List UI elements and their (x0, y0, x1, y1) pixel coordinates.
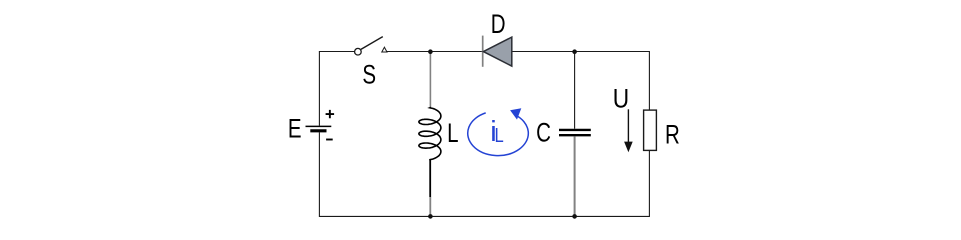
node: junction dot bottom of capacitor branch (572, 214, 577, 219)
wire: right vertical (upper, to resistor) (648, 52, 650, 111)
current loop arrow iL: elliptical arc (blue) (468, 113, 529, 156)
diode D: cathode bar (gray) (482, 36, 484, 67)
wire: right vertical (lower, from resistor) (648, 150, 650, 216)
inductor L: bottom lead (black) (429, 160, 431, 198)
wire: top-middle segment (switch to diode) (387, 51, 482, 53)
battery E: minus sign (326, 139, 333, 141)
switch S: right contact triangle (382, 47, 387, 52)
switch S: pivot circle (355, 48, 362, 55)
switch S: lever arm (361, 37, 383, 50)
wire: bottom horizontal (319, 215, 650, 217)
svg-text:D: D (491, 9, 506, 39)
svg-text:S: S (362, 60, 376, 90)
battery E: plus sign (326, 110, 335, 118)
capacitor C: top plate (559, 129, 591, 131)
svg-text:C: C (536, 118, 551, 148)
wire: capacitor bottom lead (gray) (574, 136, 576, 216)
diode D: triangle (483, 37, 511, 66)
current loop arrow iL: arrowhead (blue) (510, 108, 521, 119)
wire: top-left segment (battery to switch) (319, 51, 355, 53)
svg-text:U: U (613, 84, 629, 114)
voltage arrow U: head (624, 142, 633, 153)
svg-text:R: R (665, 120, 680, 150)
wire: inductor bottom lead (gray) (429, 197, 431, 216)
node: junction dot top of inductor branch (428, 49, 433, 54)
node: junction dot top of capacitor branch (572, 49, 577, 54)
svg-text:L: L (447, 119, 458, 149)
wire: top-right segment (diode to top-right corner) (512, 51, 650, 53)
battery E: short thick negative plate (310, 129, 326, 132)
resistor R: box (644, 110, 657, 150)
inductor L: coil (419, 108, 441, 160)
svg-text:E: E (288, 114, 302, 144)
battery E: long thin positive plate (306, 125, 332, 127)
node: junction dot bottom of inductor branch (428, 214, 433, 219)
wire: inductor top lead (gray) (429, 52, 431, 108)
wire: left vertical (lower, from battery) (318, 132, 320, 216)
capacitor C: bottom plate (559, 134, 591, 136)
svg-text:L: L (495, 124, 504, 147)
wire: capacitor top lead (574, 52, 576, 129)
wire: left vertical (upper, to battery) (318, 52, 320, 126)
voltage arrow U: shaft (627, 109, 629, 143)
